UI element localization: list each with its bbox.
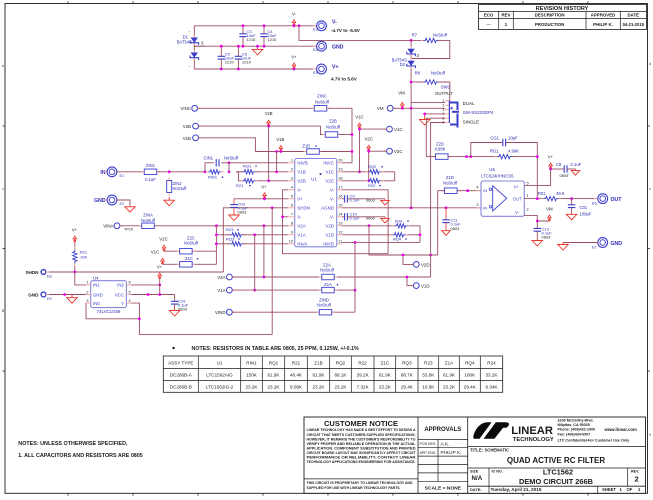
turret E2	[94, 195, 124, 206]
wire V1A vertical	[253, 235, 256, 292]
svg-text:7.32K: 7.32K	[357, 385, 370, 390]
wire SW1 pin5 to Z2D	[426, 118, 445, 156]
svg-text:2: 2	[635, 475, 639, 484]
svg-text:RQ1: RQ1	[243, 163, 252, 168]
capacitor C11	[442, 208, 461, 231]
svg-text:V-: V-	[515, 210, 520, 215]
svg-text:0603: 0603	[366, 198, 376, 203]
svg-text:3: 3	[291, 177, 293, 181]
wire V2A vertical	[263, 226, 265, 277]
node Z1A join	[354, 289, 357, 292]
svg-text:0603: 0603	[366, 216, 376, 221]
svg-text:V-: V-	[297, 188, 302, 193]
ground (C01)	[566, 213, 577, 220]
svg-text:VINA: VINA	[103, 223, 113, 228]
svg-text:61.9K: 61.9K	[443, 373, 456, 378]
svg-text:4.99K: 4.99K	[435, 147, 446, 152]
node OUT pin1	[536, 197, 539, 200]
svg-text:APPROVALS: APPROVALS	[424, 427, 461, 433]
svg-text:VERIFY PROPER AND RELIABLE OPE: VERIFY PROPER AND RELIABLE OPERATION IN …	[307, 442, 417, 446]
capacitor C6	[235, 46, 252, 69]
node Z1B bus	[351, 150, 354, 153]
wire node B to pin1	[229, 162, 288, 164]
svg-text:53.6K: 53.6K	[422, 373, 435, 378]
port VIND	[215, 309, 235, 315]
wire R11 to IN1	[75, 272, 86, 285]
svg-text:SINGLE: SINGLE	[463, 119, 479, 124]
svg-text:Z1A: Z1A	[324, 282, 332, 287]
capacitor Z2D	[433, 142, 452, 160]
wire ZIN1 to node	[158, 171, 205, 173]
svg-text:Z1B: Z1B	[314, 360, 322, 365]
label D2	[392, 58, 407, 67]
port VINA	[103, 223, 133, 232]
svg-text:DESCRIPTION: DESCRIPTION	[535, 13, 565, 18]
svg-text:LINEAR TECHNOLOGY HAS MADE A B: LINEAR TECHNOLOGY HAS MADE A BEST EFFORT…	[307, 428, 416, 432]
wire V2D tap	[403, 255, 413, 264]
wire E9 to U4 GND	[49, 294, 86, 296]
wire U5 pin5 V+	[524, 169, 550, 185]
svg-text:V+: V+	[157, 265, 163, 270]
power arrow V+ (R11)	[72, 227, 78, 242]
svg-text:VM: VM	[546, 206, 553, 211]
wire V1B to pin2 vertical	[276, 152, 278, 172]
svg-text:68.1K: 68.1K	[334, 373, 347, 378]
svg-text:7: 7	[291, 213, 293, 217]
port VINC	[181, 105, 201, 111]
capacitor C03	[230, 199, 248, 215]
label GND supply	[332, 44, 344, 50]
svg-text:TP15: TP15	[124, 228, 133, 232]
ground (GND rail)	[252, 46, 263, 55]
label SW1	[441, 85, 451, 90]
resistor R22	[366, 179, 384, 188]
op-amp U5 LTC6240HNCS5	[476, 167, 529, 217]
svg-text:Milpitas, CA 95035: Milpitas, CA 95035	[558, 423, 590, 427]
capacitor ZINC	[311, 94, 330, 112]
node V2A junctions	[263, 276, 409, 279]
power arrow V- (top rail)	[292, 12, 297, 26]
diode D2a	[407, 46, 416, 56]
wire node3 D1 to GND rail	[194, 45, 205, 47]
svg-text:NoStuff: NoStuff	[431, 70, 446, 75]
svg-text:LINEAR: LINEAR	[511, 425, 553, 437]
wire R21 leg	[236, 172, 288, 181]
svg-text:V-: V-	[330, 197, 335, 202]
svg-text:IN: IN	[483, 188, 487, 193]
capacitor C10	[342, 211, 385, 220]
node R21/V2B	[267, 179, 270, 182]
svg-text:IC NO.: IC NO.	[492, 469, 503, 473]
svg-text:U5: U5	[489, 167, 495, 172]
op-amp U1 LTC1562	[288, 159, 343, 247]
svg-text:74LVC1G58: 74LVC1G58	[97, 309, 121, 314]
svg-text:APPROVED: APPROVED	[591, 13, 616, 18]
resistor R8	[415, 70, 446, 84]
svg-text:5: 5	[527, 182, 529, 186]
svg-text:NoStuff: NoStuff	[326, 125, 341, 130]
resistor RQ3	[226, 236, 246, 246]
svg-text:3: 3	[476, 203, 478, 207]
svg-text:V-: V-	[330, 188, 335, 193]
svg-text:NoStuff: NoStuff	[224, 155, 239, 160]
svg-text:10pF: 10pF	[508, 136, 518, 141]
svg-text:E8: E8	[47, 275, 52, 279]
svg-text:5: 5	[129, 290, 131, 294]
svg-text:SW-SS22SDP4: SW-SS22SDP4	[463, 110, 494, 115]
capacitor CG1	[490, 136, 518, 147]
svg-text:TITLE:: TITLE:	[470, 447, 483, 452]
diode D1a	[190, 35, 199, 45]
wire E7 to ground	[563, 242, 598, 244]
svg-text:1: 1	[86, 281, 88, 285]
svg-text:TECHNOLOGY: TECHNOLOGY	[513, 437, 554, 443]
wire D2 branch	[410, 40, 412, 108]
wire Z2D right	[448, 156, 497, 158]
port V1B	[183, 135, 202, 141]
svg-text:8: 8	[291, 222, 293, 226]
svg-text:VM: VM	[398, 90, 405, 95]
wire V1C row	[360, 129, 387, 172]
wire Z2C row	[164, 250, 216, 252]
svg-text:6: 6	[291, 204, 293, 208]
svg-text:U4: U4	[93, 275, 99, 280]
turret E3	[313, 21, 327, 32]
svg-text:E4: E4	[313, 48, 318, 52]
capacitor ZINA	[139, 213, 158, 229]
svg-text:V+: V+	[332, 64, 339, 70]
svg-text:6.34K: 6.34K	[485, 385, 498, 390]
node VM junctions	[401, 107, 413, 110]
svg-text:SCALE = NONE: SCALE = NONE	[425, 485, 462, 491]
svg-text:HOWEVER, IT REMAINS THE CUSTOM: HOWEVER, IT REMAINS THE CUSTOMER'S RESPO…	[307, 437, 416, 441]
svg-text:CIRCUIT THAT MEETS CUSTOMER-SU: CIRCUIT THAT MEETS CUSTOMER-SUPPLIED SPE…	[307, 433, 416, 437]
title block	[304, 417, 646, 493]
svg-text:C8: C8	[556, 162, 562, 167]
svg-text:1210: 1210	[242, 60, 252, 65]
svg-text:49.9: 49.9	[556, 191, 565, 196]
svg-text:VCC: VCC	[115, 292, 124, 297]
svg-text:TECHNOLOGY APPLICATIONS ENGINE: TECHNOLOGY APPLICATIONS ENGINEERING FOR …	[307, 460, 416, 464]
svg-text:V2C: V2C	[325, 179, 335, 184]
svg-text:23.2K: 23.2K	[334, 385, 347, 390]
svg-text:Z1A: Z1A	[445, 360, 454, 365]
diode D1b	[190, 50, 199, 60]
capacitor ZIN1	[141, 163, 160, 182]
svg-text:0603: 0603	[451, 226, 461, 231]
svg-text:APPLICATION. COMPONENT SUBSTI: APPLICATION. COMPONENT SUBSTITUTION AND …	[307, 446, 416, 450]
resistor R7	[412, 32, 448, 42]
svg-text:RIN1: RIN1	[246, 360, 257, 365]
svg-text:IN2: IN2	[117, 283, 124, 288]
svg-text:0603: 0603	[238, 210, 248, 215]
svg-text:SW1: SW1	[441, 85, 451, 90]
svg-text:R22: R22	[358, 360, 367, 365]
port V1C	[384, 126, 403, 132]
IC U4	[86, 275, 131, 314]
node C8	[549, 168, 552, 171]
svg-text:SIZE: SIZE	[470, 469, 479, 473]
svg-text:d: d	[649, 62, 651, 66]
node V1D tap	[0, 0, 1, 1]
wire pin19 row	[342, 172, 395, 181]
svg-text:GND: GND	[28, 293, 39, 298]
capacitor C9	[342, 193, 385, 202]
node V1A up-tap	[253, 233, 256, 236]
node R11 bottom	[73, 271, 76, 274]
svg-text:V1C: V1C	[325, 170, 335, 175]
capacitor C4	[260, 26, 277, 46]
wire SW1 pin4 to ground	[425, 113, 445, 115]
svg-text:NoStuff: NoStuff	[433, 32, 448, 37]
ground (E9)	[67, 295, 78, 304]
svg-text:29.4K: 29.4K	[464, 385, 477, 390]
capacitor C8	[551, 162, 582, 178]
svg-text:V-: V-	[292, 12, 297, 17]
svg-text:V-: V-	[330, 215, 335, 220]
capacitor C19	[171, 295, 189, 312]
svg-text:—: —	[486, 22, 491, 27]
svg-text:V1A: V1A	[297, 233, 306, 238]
wire VINC to ZINC	[198, 107, 313, 109]
svg-text:GND: GND	[93, 292, 103, 297]
wire V2B vertical	[268, 126, 270, 181]
wire SW1 pin6 down	[429, 123, 445, 278]
svg-text:10K: 10K	[80, 255, 87, 260]
turret E8	[25, 270, 51, 279]
power arrow V2B	[265, 111, 273, 126]
svg-text:V+: V+	[291, 55, 297, 60]
svg-text:V2D: V2D	[325, 224, 335, 229]
svg-text:1: 1	[527, 194, 529, 198]
wire V+ rail	[194, 68, 316, 70]
wire Z1B to bus	[321, 151, 353, 153]
svg-text:23.2K: 23.2K	[443, 385, 456, 390]
capacitor ZIN2	[167, 178, 188, 196]
node RQ4 right	[419, 233, 422, 236]
turret E5	[313, 64, 327, 75]
label -4.7V to -5.6V	[331, 28, 361, 33]
svg-text:NoStuff: NoStuff	[315, 100, 330, 105]
svg-text:VIND: VIND	[215, 310, 226, 315]
wire OUT row	[524, 198, 598, 200]
capacitor C01	[568, 199, 592, 217]
svg-text:~: ~	[189, 65, 191, 69]
node V2B arrow	[267, 125, 270, 128]
svg-text:ZIN1: ZIN1	[146, 163, 156, 168]
svg-text:OF: OF	[627, 487, 633, 492]
svg-text:REV.: REV.	[631, 469, 639, 473]
diode D2b	[407, 58, 416, 68]
svg-text:ECO: ECO	[484, 13, 494, 18]
ground (C11)	[442, 230, 451, 236]
svg-text:IN0: IN0	[93, 301, 100, 306]
svg-text:V-: V-	[332, 20, 337, 26]
svg-text:VINC: VINC	[181, 106, 192, 111]
svg-text:12: 12	[338, 231, 342, 235]
svg-text:DATE:: DATE:	[470, 487, 482, 492]
resistor R23	[226, 227, 246, 237]
svg-text:RQ1: RQ1	[269, 360, 279, 365]
svg-text:LTC1562IG-2: LTC1562IG-2	[206, 385, 234, 390]
svg-text:29.4K: 29.4K	[401, 385, 414, 390]
svg-text:DEMO CIRCUIT 266B: DEMO CIRCUIT 266B	[519, 477, 593, 486]
node Y loop	[138, 317, 141, 320]
node pin11 Z1A tap	[354, 241, 357, 244]
wire Z1C row	[163, 263, 217, 265]
svg-text:Z1C: Z1C	[185, 256, 193, 261]
svg-text:0.1uF: 0.1uF	[350, 198, 361, 203]
svg-text:a: a	[649, 433, 651, 437]
svg-text:OUTPUT: OUTPUT	[435, 91, 453, 96]
svg-text:15: 15	[338, 204, 342, 208]
wire R7 right to node3 D2	[412, 40, 450, 58]
svg-text:9.09K: 9.09K	[290, 385, 303, 390]
node RQ3 left	[215, 242, 218, 245]
node pin7 V-	[281, 215, 284, 218]
svg-text:V2A: V2A	[217, 275, 225, 280]
resistor RIN1	[206, 170, 224, 180]
svg-text:4.7V to 5.6V: 4.7V to 5.6V	[331, 77, 358, 82]
svg-text:E3: E3	[313, 28, 318, 32]
svg-text:APP ENG.: APP ENG.	[420, 451, 437, 455]
svg-text:LTC6240HNCS5: LTC6240HNCS5	[481, 173, 514, 178]
svg-text:39.2K: 39.2K	[357, 373, 370, 378]
wire pin12 row	[342, 234, 420, 236]
label V+ supply	[332, 64, 339, 70]
svg-text:3: 3	[86, 299, 88, 303]
svg-text:V1C: V1C	[394, 127, 403, 132]
svg-text:V2A: V2A	[297, 224, 306, 229]
svg-text:2: 2	[527, 208, 529, 212]
capacitor ZIND	[316, 298, 335, 315]
wire GND rail	[194, 45, 316, 47]
node C01 tap	[570, 197, 573, 200]
svg-text:R23: R23	[424, 360, 433, 365]
svg-text:PHILIP K.: PHILIP K.	[441, 450, 462, 456]
svg-text:0.1uF: 0.1uF	[145, 177, 156, 182]
resistor R21	[236, 179, 258, 188]
ground (E7)	[558, 243, 569, 251]
wire V- rail	[194, 25, 316, 27]
node AGND junctions	[410, 206, 448, 209]
svg-text:V-: V-	[297, 215, 302, 220]
svg-text:4.99K: 4.99K	[508, 148, 519, 153]
svg-text:0.1uF: 0.1uF	[350, 216, 361, 221]
svg-text:16: 16	[338, 195, 342, 199]
svg-text:9: 9	[291, 231, 293, 235]
svg-text:V1A: V1A	[217, 288, 225, 293]
svg-text:www.linear.com: www.linear.com	[604, 427, 637, 432]
node RQ1 right / V1B	[275, 170, 278, 173]
svg-text:PRODUCTION: PRODUCTION	[535, 22, 565, 27]
svg-text:NoStuff: NoStuff	[443, 180, 458, 185]
power arrow V+ (C8)	[548, 154, 554, 169]
ground (C03)	[229, 213, 240, 221]
svg-text:RQ3: RQ3	[226, 236, 235, 241]
svg-text:2: 2	[291, 168, 293, 172]
svg-text:13: 13	[338, 222, 342, 226]
svg-text:b: b	[2, 64, 4, 68]
node V1C	[358, 128, 361, 174]
svg-text:100pF: 100pF	[580, 211, 592, 216]
svg-text:V1D: V1D	[325, 233, 335, 238]
svg-text:0603: 0603	[560, 173, 570, 178]
wire pin17 V- leg	[342, 190, 388, 254]
svg-text:04-21-2015: 04-21-2015	[623, 22, 645, 27]
svg-text:18: 18	[338, 177, 342, 181]
label DUAL	[463, 101, 475, 106]
resistor RQ2	[366, 164, 384, 174]
resistor RQ1	[240, 163, 258, 174]
node D1 left rail dot	[410, 39, 413, 42]
svg-text:1630 McCarthy Blvd.: 1630 McCarthy Blvd.	[558, 419, 594, 423]
svg-text:LTC1562: LTC1562	[543, 467, 573, 476]
svg-text:R24: R24	[487, 360, 496, 365]
power arrow VM (U5)	[546, 206, 553, 221]
svg-text:61.9K: 61.9K	[379, 373, 392, 378]
capacitor Z2A	[319, 262, 338, 279]
svg-text:DUAL: DUAL	[463, 101, 475, 106]
wire Z2B to bus	[339, 134, 352, 136]
svg-text:V2C: V2C	[159, 236, 168, 241]
node VCC junctions	[147, 293, 162, 296]
wire ZINA to pin8	[156, 225, 289, 227]
svg-text:1210: 1210	[247, 37, 257, 42]
svg-text:V2D: V2D	[421, 262, 430, 267]
svg-text:1. ALL CAPACITORS AND RESISTO: 1. ALL CAPACITORS AND RESISTORS ARE 0805	[18, 453, 143, 459]
svg-text:19: 19	[338, 168, 342, 172]
svg-text:PERFORMANCE OR RELIABILITY. C: PERFORMANCE OR RELIABILITY. CONTACT LINE…	[307, 456, 416, 460]
svg-text:Y: Y	[121, 301, 124, 306]
svg-text:150K: 150K	[246, 373, 258, 378]
svg-text:E6: E6	[592, 202, 597, 206]
node Z2B bus	[351, 133, 354, 136]
node SHDN Y-branch	[271, 206, 274, 209]
svg-text:E9: E9	[47, 297, 52, 301]
wire V1A row	[232, 289, 355, 291]
label OUTPUT	[435, 91, 453, 96]
svg-text:V+: V+	[261, 184, 267, 189]
svg-text:LTC Confidential-For Customer: LTC Confidential-For Customer Use Only	[558, 439, 631, 443]
turret E4	[313, 41, 327, 52]
node SW1 pin4	[423, 113, 426, 116]
svg-text:V1B: V1B	[183, 136, 191, 141]
svg-text:N/A: N/A	[472, 475, 483, 482]
svg-text:Z1C: Z1C	[381, 360, 390, 365]
svg-text:V2B: V2B	[297, 179, 306, 184]
wire CIN1 branch	[205, 163, 229, 172]
capacitor CIN1	[203, 155, 238, 166]
svg-text:Phone: (408)432-1900: Phone: (408)432-1900	[558, 428, 596, 432]
svg-text:V2C: V2C	[394, 149, 403, 154]
svg-text:REVISION HISTORY: REVISION HISTORY	[536, 6, 589, 12]
power arrow V2C left	[159, 236, 168, 251]
turret E9	[28, 292, 51, 301]
node pin5 V+	[263, 197, 266, 200]
svg-text:E7: E7	[592, 245, 597, 249]
svg-text:SHEET: SHEET	[602, 487, 616, 492]
power arrow V1C left	[151, 249, 165, 264]
wire pin7 stub	[283, 216, 289, 218]
power arrow V2C	[365, 136, 373, 151]
svg-text:INVA: INVA	[297, 242, 307, 247]
svg-text:23.2K: 23.2K	[379, 385, 392, 390]
wire VIND row	[232, 311, 355, 313]
ground (ZIN2)	[164, 197, 175, 206]
port V2D	[410, 262, 429, 268]
wire Z1D left	[438, 191, 445, 255]
